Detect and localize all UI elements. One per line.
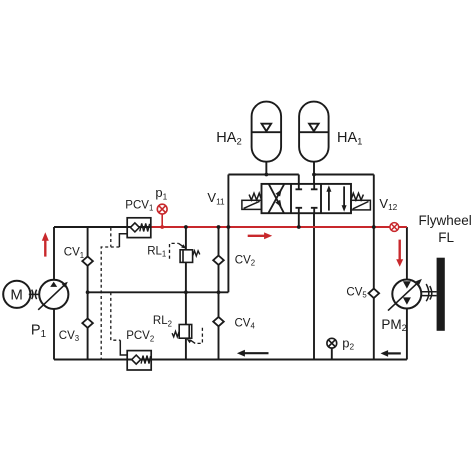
flow arrow black left (bottom line near PM2) (388, 352, 401, 354)
gauge point p1 (157, 204, 167, 214)
wire: PCV2 pilot dashed drop from top line (110, 228, 112, 247)
wire: PM2 top stem (406, 227, 408, 280)
flywheel FL (437, 258, 445, 331)
node: CV2 branch at middle line (217, 290, 221, 294)
valve centre position blocked ports (296, 184, 318, 213)
check valve CV1 (82, 256, 93, 265)
pump P1 flow triangle (50, 282, 57, 287)
wire: CV1/CV3 branch vertical (87, 227, 89, 360)
svg-text:Flywheel: Flywheel (419, 213, 472, 228)
wire: PCV1 pilot dashed run to bottom line (101, 247, 119, 360)
gauge point on red line near V12 (390, 223, 399, 232)
valve V11/V12 body (262, 184, 352, 213)
wire: top line black segment (P1 top to PCV1) (54, 226, 151, 228)
check valve CV2 (213, 256, 224, 265)
svg-text:FL: FL (438, 230, 454, 245)
shaft PM2 to flywheel (421, 284, 436, 301)
node: link line at red line (227, 225, 231, 229)
relief valve RL2 (172, 325, 192, 339)
wire: CV2/CV4 branch vertical (218, 227, 220, 360)
shaft coupling M to P1 (29, 290, 39, 300)
node: HA2 stem junction (264, 173, 268, 177)
wire: link vertical accumulator-line to middle line (227, 175, 229, 293)
wire: RL1/RL2 branch vertical (185, 227, 187, 360)
flow arrow red down (into PM2) (399, 240, 401, 260)
wire: pump P1 top stem (53, 227, 55, 280)
wire: PCV1 pilot solid stub (119, 234, 127, 247)
flow arrow black left (bottom line centre) (245, 352, 269, 354)
PM2 flow triangle upper (403, 281, 411, 288)
valve right spring (351, 193, 363, 200)
valve left spring (249, 193, 261, 200)
accumulator HA2 (252, 102, 282, 162)
node: RL branch at red line (184, 225, 188, 229)
wire: PCV2 pilot solid stub (120, 340, 127, 355)
wire: pump P1 bottom stem (53, 309, 55, 360)
accumulator HA1 (299, 102, 329, 162)
wire: accumulator HA2 stem (265, 162, 267, 175)
flow arrow red right (on red line) (248, 235, 265, 237)
node: p1 stem at red line (160, 225, 164, 229)
pilot check valve PCV1 (127, 218, 151, 238)
relief valve RL1 pilot dashes (170, 243, 179, 258)
wire: valve port A down-leg to red line (298, 175, 300, 228)
PM2 variable arrow (388, 282, 419, 311)
wire: accumulator manifold right segment (314, 174, 374, 176)
check valve CV5 (369, 289, 380, 298)
electric motor M (3, 281, 30, 308)
wire: valve port B leg down to bottom line (313, 213, 315, 359)
node: HA1 stem junction (312, 173, 316, 177)
valve right position straight arrows (326, 185, 346, 211)
junction dots (86, 173, 376, 295)
pilot check valve PCV2 (127, 351, 151, 370)
gauge point p2 (327, 338, 337, 348)
node: CV branch at middle line (86, 290, 90, 294)
flow arrow red up (at P1 supply) (44, 240, 46, 257)
relief valve RL1 (180, 250, 200, 263)
wire: p1 gauge stem (red) (161, 214, 163, 227)
wire: red pressure line (151, 226, 407, 228)
valve right solenoid (351, 200, 370, 210)
wire: middle line (88, 291, 229, 293)
pump P1 (39, 280, 68, 309)
wire: right branch vertical through CV5 (373, 175, 375, 360)
pump P1 variable arrow (38, 285, 64, 310)
wire: bottom return line (54, 359, 407, 361)
valve left solenoid (242, 200, 262, 209)
wire: accumulator manifold left segment (228, 174, 298, 176)
relief valve RL1 pilot arrow (179, 243, 184, 246)
PM2 flow triangle lower (403, 297, 411, 304)
valve left position crossed arrows (269, 184, 285, 213)
check valve CV3 (82, 318, 93, 327)
wire: PCV2 pilot dashed run from middle line (111, 292, 121, 340)
relief valve RL2 pilot arrow (190, 340, 195, 344)
wire: p2 gauge stem (331, 348, 333, 359)
node: valve port A at red line (297, 225, 301, 229)
relief valve RL2 pilot dashes (195, 328, 202, 344)
node: CV2 branch at red line (217, 225, 221, 229)
check valve CV4 (213, 317, 224, 326)
svg-text:M: M (10, 287, 23, 304)
pump/motor PM2 (392, 280, 421, 309)
wire: PM2 bottom stem (406, 308, 408, 359)
wire: accumulator HA1 stem to valve (313, 162, 315, 184)
node: RL branch at middle line (184, 290, 188, 294)
node: right branch at red line (372, 225, 376, 229)
